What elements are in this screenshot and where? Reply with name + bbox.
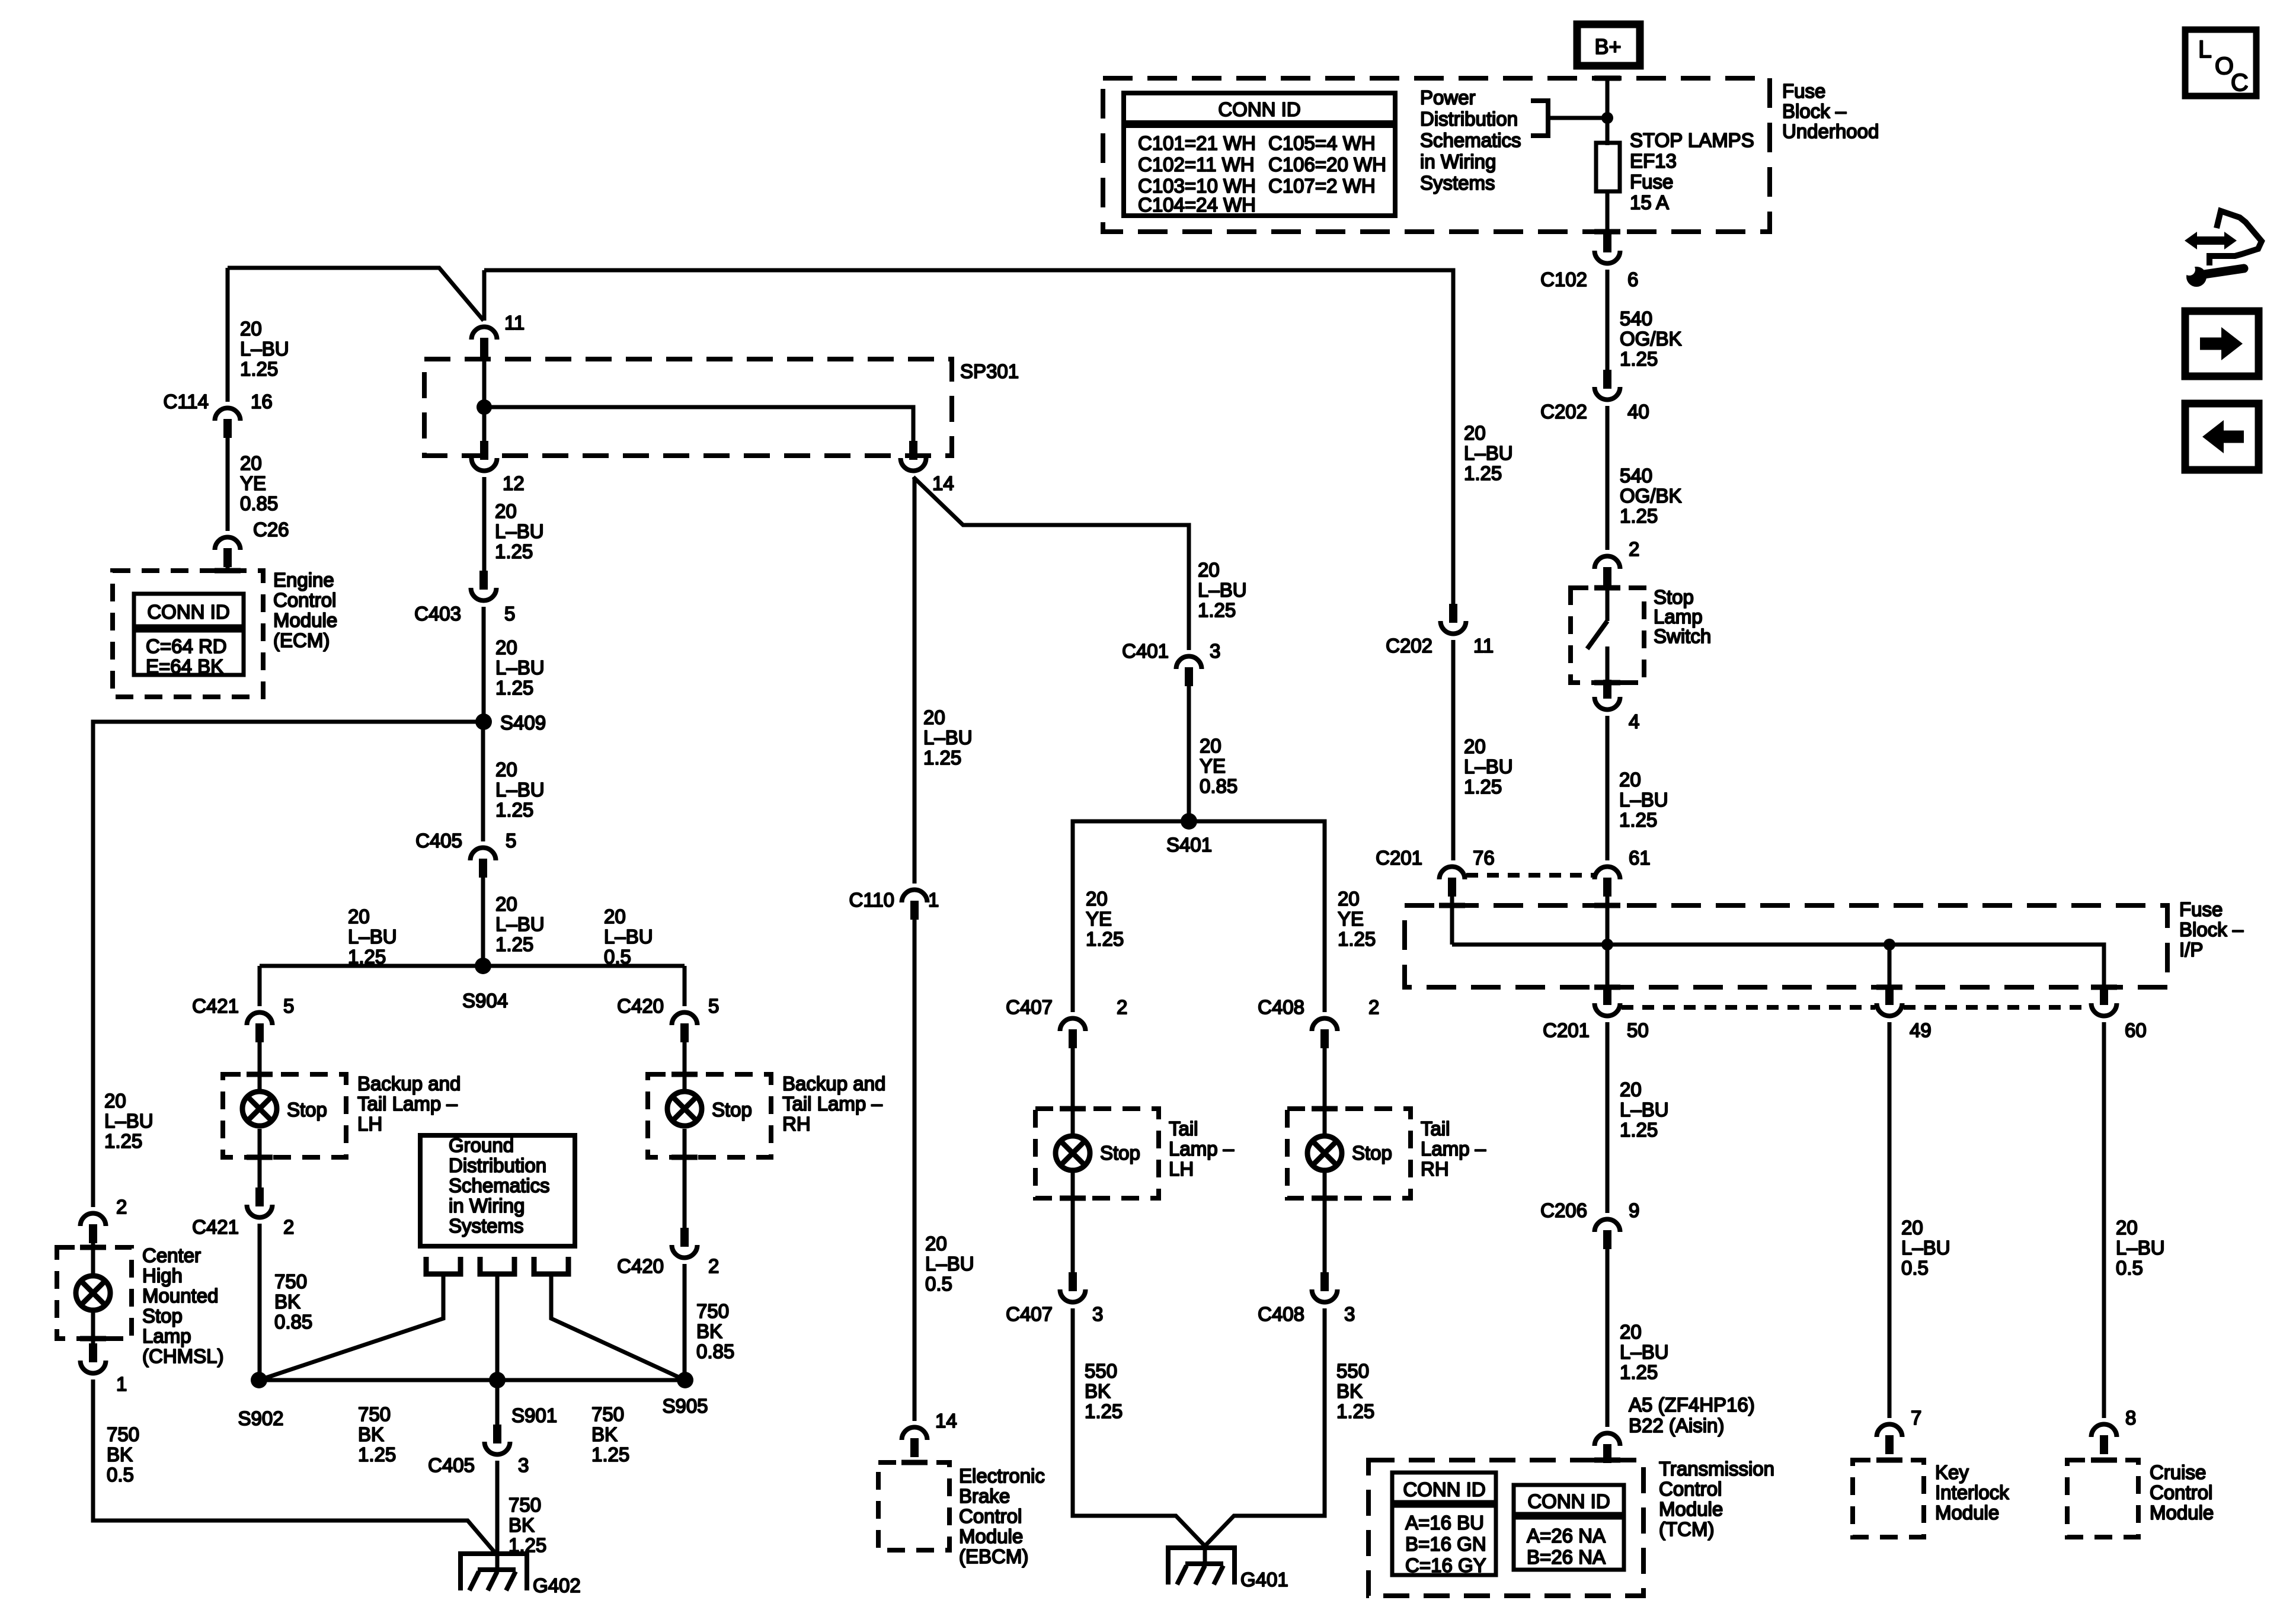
svg-text:2: 2: [1629, 538, 1639, 560]
svg-text:61: 61: [1629, 847, 1651, 869]
svg-text:G402: G402: [533, 1574, 581, 1596]
svg-text:A=26 NA: A=26 NA: [1527, 1525, 1606, 1547]
svg-text:C26: C26: [253, 518, 289, 540]
svg-text:L–BU: L–BU: [1619, 789, 1668, 811]
svg-text:CONN ID: CONN ID: [1403, 1478, 1485, 1500]
svg-text:750: 750: [696, 1300, 729, 1322]
svg-text:15 A: 15 A: [1630, 191, 1669, 213]
svg-text:RH: RH: [782, 1113, 811, 1135]
svg-text:Module: Module: [959, 1525, 1023, 1547]
crossing bar ECM top: [215, 568, 241, 574]
connector CHMSL pin 1: [80, 1361, 105, 1374]
connector C421 pin 2: [247, 1205, 273, 1218]
svg-text:C104=24 WH: C104=24 WH: [1138, 194, 1256, 216]
svg-text:C407: C407: [1006, 1303, 1053, 1325]
svg-text:(TCM): (TCM): [1659, 1518, 1714, 1540]
svg-text:LH: LH: [357, 1113, 382, 1135]
svg-text:20: 20: [495, 758, 517, 780]
wire tail RH to C408-3: [1323, 1170, 1327, 1273]
svg-text:S401: S401: [1166, 834, 1212, 856]
svg-text:5: 5: [708, 995, 719, 1017]
fuse block underhood dashed box: [1103, 78, 1770, 232]
wire conn12 to C403: [482, 477, 487, 572]
wire CHMSL conn2 into box: [91, 1240, 95, 1275]
crossing bar lamp RH bottom: [671, 1155, 698, 1160]
lamp box Tail Lamp RH: [1287, 1109, 1411, 1198]
svg-text:S902: S902: [238, 1407, 283, 1429]
wire C201-50 to C206: [1606, 1022, 1610, 1213]
wire CHMSL lamp to pin1: [91, 1311, 95, 1344]
crossing bar CHMSL top: [80, 1245, 106, 1250]
bracket power distribution reference: [1531, 101, 1548, 136]
svg-text:C102: C102: [1540, 268, 1587, 290]
svg-text:16: 16: [251, 391, 273, 412]
lamp Stop LH (tail lamp): [1056, 1136, 1090, 1170]
svg-text:9: 9: [1629, 1199, 1639, 1221]
connector C420 pin 2: [672, 1245, 698, 1258]
svg-text:Fuse: Fuse: [1782, 80, 1825, 102]
svg-text:0.5: 0.5: [1901, 1257, 1929, 1279]
svg-text:C102=11 WH: C102=11 WH: [1138, 153, 1255, 175]
connector C102 pin 6: [1595, 251, 1620, 264]
svg-text:C420: C420: [617, 1255, 664, 1277]
svg-text:20: 20: [604, 905, 626, 927]
module box Key Interlock Module: [1853, 1460, 1924, 1537]
svg-text:1.25: 1.25: [495, 933, 533, 955]
lamp box Tail Lamp LH: [1035, 1109, 1159, 1198]
svg-text:BK: BK: [358, 1423, 384, 1445]
svg-text:L–BU: L–BU: [1901, 1237, 1950, 1259]
svg-text:1.25: 1.25: [348, 946, 386, 968]
connector C201 pin 49: [1877, 1003, 1902, 1016]
svg-text:4: 4: [1629, 710, 1639, 732]
svg-text:Interlock: Interlock: [1935, 1481, 2009, 1503]
svg-text:C408: C408: [1258, 1303, 1304, 1325]
wire C405 to S904: [481, 874, 485, 966]
svg-text:0.5: 0.5: [107, 1464, 134, 1486]
svg-text:Systems: Systems: [449, 1215, 524, 1237]
crossing bar IP bottom at 49: [1876, 985, 1902, 990]
wire C201-76 into I/P bus: [1450, 894, 1454, 945]
connector C110 pin 1: [902, 890, 928, 903]
svg-text:20: 20: [1198, 559, 1220, 581]
svg-text:YE: YE: [1338, 908, 1364, 930]
wire S904 to C420: [683, 966, 687, 1006]
node S905: [677, 1372, 693, 1388]
svg-text:C101=21 WH: C101=21 WH: [1138, 132, 1256, 154]
connector C201 pin 76: [1440, 867, 1465, 880]
connector Key Interlock pin 7: [1877, 1425, 1902, 1438]
svg-text:L–BU: L–BU: [348, 926, 397, 948]
svg-text:750: 750: [274, 1270, 307, 1292]
svg-text:1.25: 1.25: [358, 1443, 396, 1465]
connector TCM pin A5/B22: [1595, 1433, 1620, 1446]
wire conn11 through SP301 to conn12: [482, 354, 487, 442]
crossing bar tail LH bottom: [1060, 1196, 1086, 1201]
svg-text:Control: Control: [1659, 1478, 1722, 1500]
crossing bar EBCM top: [901, 1460, 928, 1465]
svg-text:Distribution: Distribution: [1420, 108, 1518, 130]
svg-text:C405: C405: [415, 830, 462, 852]
module box Cruise Control Module: [2067, 1460, 2138, 1537]
svg-text:14: 14: [935, 1410, 957, 1432]
svg-text:L–BU: L–BU: [925, 1253, 974, 1275]
wire tail LH to C407-3: [1071, 1170, 1075, 1273]
svg-text:Tail: Tail: [1169, 1118, 1198, 1140]
svg-text:1.25: 1.25: [1338, 928, 1376, 950]
svg-text:1.25: 1.25: [1464, 776, 1502, 798]
svg-text:750: 750: [107, 1423, 139, 1445]
ground G402: [461, 1551, 527, 1556]
svg-text:20: 20: [1619, 769, 1641, 790]
crossing bar lamp RH top: [671, 1072, 698, 1077]
svg-text:750: 750: [509, 1494, 541, 1516]
wire C202-40 to switch pin2: [1606, 406, 1610, 550]
svg-text:2: 2: [116, 1196, 127, 1218]
svg-text:Tail: Tail: [1421, 1118, 1450, 1140]
wire CHMSL pin1 to ground run: [93, 1379, 495, 1553]
wire C405-3 to G402: [495, 1461, 500, 1554]
svg-text:540: 540: [1620, 308, 1652, 329]
crossing bar IP bottom at 50: [1594, 985, 1620, 990]
crossing bar CHMSL bottom: [80, 1336, 106, 1342]
svg-text:5: 5: [506, 830, 516, 852]
connector C407 pin 2: [1060, 1018, 1086, 1031]
svg-text:2: 2: [708, 1255, 719, 1277]
connector C403 pin 5: [471, 588, 497, 601]
svg-text:14: 14: [932, 472, 954, 494]
wire C420-2 to S905: [683, 1264, 687, 1380]
svg-text:20: 20: [1464, 422, 1486, 444]
crossing bar lamp LH top: [247, 1072, 273, 1077]
connector switch pin 4: [1595, 697, 1620, 710]
icon box back arrow: [2185, 404, 2259, 470]
table CONN ID 2 body box (TCM): [1514, 1518, 1624, 1570]
wire top horizontal C114 branch: [228, 268, 484, 321]
wire S901 to C405-3: [495, 1380, 500, 1425]
svg-text:C201: C201: [1376, 847, 1422, 869]
switch box Stop Lamp Switch: [1571, 588, 1644, 683]
svg-text:L–BU: L–BU: [104, 1110, 154, 1132]
lamp Stop RH (backup/tail): [667, 1092, 702, 1126]
wire S904 horizontal bus: [260, 964, 685, 968]
svg-text:BK: BK: [591, 1423, 618, 1445]
svg-text:20: 20: [104, 1090, 126, 1112]
node S409: [475, 713, 492, 730]
connector C408 pin 3: [1312, 1289, 1338, 1302]
connector C206 pin 9: [1595, 1219, 1620, 1233]
table CONN ID 1 body box (TCM): [1392, 1506, 1496, 1575]
svg-text:RH: RH: [1421, 1158, 1449, 1180]
svg-text:C420: C420: [617, 995, 664, 1017]
svg-text:Control: Control: [2150, 1481, 2212, 1503]
connector 14: [901, 458, 926, 471]
svg-text:0.5: 0.5: [604, 946, 631, 968]
svg-text:5: 5: [283, 995, 294, 1017]
svg-text:Module: Module: [1935, 1502, 1999, 1523]
svg-text:S901: S901: [511, 1404, 557, 1426]
svg-text:L–BU: L–BU: [604, 926, 653, 948]
svg-text:Tail Lamp –: Tail Lamp –: [782, 1093, 882, 1115]
svg-text:L–BU: L–BU: [495, 657, 545, 678]
svg-text:C407: C407: [1006, 996, 1053, 1018]
lamp Stop RH (tail lamp): [1307, 1136, 1342, 1170]
svg-text:Control: Control: [273, 589, 336, 611]
wire S904 to C421: [258, 966, 262, 1006]
wire C202-11 to C201-76: [1451, 640, 1456, 860]
svg-text:20: 20: [1464, 735, 1486, 757]
wire S409 branch to CHMSL: [93, 722, 484, 1207]
svg-text:L–BU: L–BU: [1198, 579, 1247, 601]
svg-text:C421: C421: [192, 995, 239, 1017]
wire switch pin4 to C201-61: [1606, 716, 1610, 860]
svg-text:Ground: Ground: [449, 1134, 514, 1156]
wire C206 to TCM: [1606, 1246, 1610, 1427]
svg-text:G401: G401: [1240, 1569, 1288, 1590]
crossing bar switch bottom: [1594, 680, 1620, 686]
wire second top horizontal to C202-11: [484, 270, 1453, 604]
svg-text:SP301: SP301: [960, 360, 1019, 382]
table CONN ID header box (ECM): [134, 594, 244, 626]
wire B+ to fuse: [1606, 78, 1610, 145]
svg-text:1.25: 1.25: [1619, 809, 1657, 831]
svg-text:L–BU: L–BU: [1464, 756, 1513, 777]
svg-text:12: 12: [503, 472, 525, 494]
svg-text:Stop: Stop: [1352, 1142, 1392, 1164]
svg-text:1.25: 1.25: [240, 358, 278, 380]
svg-text:Center: Center: [142, 1244, 201, 1266]
crossing bar TCM top: [1594, 1458, 1620, 1463]
svg-text:in Wiring: in Wiring: [1420, 151, 1496, 172]
ground G401: [1168, 1545, 1235, 1550]
svg-text:STOP LAMPS: STOP LAMPS: [1630, 129, 1754, 151]
svg-text:550: 550: [1336, 1360, 1369, 1382]
wire C114 riser vertical: [226, 268, 230, 402]
wire C408-2 into lamp box: [1323, 1045, 1327, 1134]
node S901: [489, 1372, 506, 1388]
splice box SP301: [424, 359, 952, 456]
svg-text:0.85: 0.85: [274, 1311, 312, 1333]
connector C405 pin 3: [485, 1442, 510, 1455]
svg-text:20: 20: [495, 636, 517, 658]
svg-text:Block –: Block –: [1782, 100, 1847, 122]
connector Cruise Control pin 8: [2092, 1425, 2117, 1438]
svg-text:20: 20: [1901, 1217, 1923, 1238]
svg-text:C110: C110: [849, 889, 894, 911]
svg-text:BK: BK: [274, 1291, 300, 1313]
svg-text:BK: BK: [509, 1514, 535, 1536]
svg-text:C105=4 WH: C105=4 WH: [1268, 132, 1376, 154]
svg-text:C106=20 WH: C106=20 WH: [1268, 153, 1386, 175]
wire C407-3 to G401: [1073, 1308, 1205, 1546]
svg-text:BK: BK: [107, 1443, 133, 1465]
svg-text:CONN ID: CONN ID: [1527, 1490, 1610, 1512]
svg-text:YE: YE: [240, 472, 266, 494]
connector switch pin 2: [1595, 556, 1620, 569]
connector leg 2 (ground distribution): [480, 1257, 514, 1274]
svg-text:C421: C421: [192, 1216, 239, 1238]
svg-text:(ECM): (ECM): [273, 629, 330, 651]
svg-text:C107=2 WH: C107=2 WH: [1268, 175, 1376, 197]
svg-text:1.25: 1.25: [591, 1443, 629, 1465]
svg-text:0.5: 0.5: [2116, 1257, 2143, 1279]
svg-text:20: 20: [2116, 1217, 2138, 1238]
svg-text:Stop: Stop: [1654, 586, 1694, 608]
icon box forward arrow: [2185, 311, 2259, 376]
svg-text:20: 20: [495, 893, 517, 915]
svg-text:1: 1: [116, 1373, 127, 1395]
wire pin60 to Cruise Control: [2102, 1022, 2106, 1418]
svg-text:0.85: 0.85: [696, 1340, 734, 1362]
svg-text:C403: C403: [414, 603, 461, 625]
crossing bar IP top at 61: [1594, 903, 1620, 908]
wire pin49 to Key Interlock: [1888, 1022, 1892, 1418]
svg-text:L–BU: L–BU: [923, 726, 973, 748]
svg-text:20: 20: [923, 706, 945, 728]
table CONN ID 1 header box (TCM): [1392, 1473, 1496, 1502]
svg-text:Schematics: Schematics: [1420, 129, 1521, 151]
svg-text:5: 5: [504, 603, 515, 625]
LOC reference box: [2185, 30, 2256, 96]
svg-text:L–BU: L–BU: [240, 338, 289, 360]
svg-text:Backup and: Backup and: [357, 1073, 461, 1094]
svg-text:2: 2: [283, 1216, 294, 1238]
connector C401 pin 3: [1176, 657, 1202, 670]
crossing bar underhood bottom: [1594, 229, 1620, 235]
icon back arrow: [2221, 431, 2244, 443]
crossing bar key top: [1876, 1458, 1902, 1463]
wire leg2 to S901: [495, 1274, 500, 1380]
svg-text:50: 50: [1627, 1019, 1649, 1041]
svg-text:Key: Key: [1935, 1461, 1969, 1483]
svg-text:YE: YE: [1086, 908, 1112, 930]
crossing bar underhood top: [1594, 76, 1620, 81]
wire C408-3 to G401: [1205, 1308, 1325, 1546]
svg-text:Power: Power: [1420, 87, 1476, 108]
wire lamp RH to C420-2: [683, 1129, 687, 1228]
crossing bar IP bottom at 60: [2091, 985, 2117, 990]
svg-text:750: 750: [358, 1403, 391, 1425]
connector C201 pin 61: [1595, 867, 1620, 880]
connector C114 pin 16: [215, 408, 240, 421]
svg-text:B+: B+: [1594, 34, 1621, 59]
switch lever stop lamp switch: [1606, 584, 1610, 621]
svg-text:L–BU: L–BU: [1620, 1099, 1669, 1121]
svg-text:1.25: 1.25: [1620, 1119, 1658, 1141]
module box Engine Control Module (ECM): [113, 571, 263, 697]
svg-text:L–BU: L–BU: [495, 520, 544, 542]
svg-text:(CHMSL): (CHMSL): [142, 1345, 224, 1367]
svg-text:Systems: Systems: [1420, 172, 1495, 194]
wire conn11 riser: [482, 270, 487, 321]
svg-text:20: 20: [1200, 735, 1221, 757]
svg-text:1.25: 1.25: [1085, 1400, 1123, 1422]
svg-text:1: 1: [928, 889, 939, 911]
svg-text:OG/BK: OG/BK: [1620, 485, 1682, 507]
svg-text:20: 20: [240, 318, 262, 340]
svg-text:Stop: Stop: [142, 1305, 183, 1327]
wire C102 to C202-40: [1606, 270, 1610, 370]
svg-text:540: 540: [1620, 465, 1652, 486]
module box Transmission Control Module (TCM): [1368, 1460, 1643, 1596]
lamp Stop LH (backup/tail): [242, 1092, 277, 1126]
svg-text:1.25: 1.25: [495, 540, 533, 562]
svg-text:B22 (Aisin): B22 (Aisin): [1629, 1414, 1724, 1436]
icon double arrow: [2195, 236, 2227, 245]
svg-text:BK: BK: [1085, 1380, 1111, 1402]
dotted connector line C201 lower left: [1622, 1005, 1875, 1010]
svg-text:750: 750: [591, 1403, 624, 1425]
connector 12: [472, 458, 497, 471]
lamp box CHMSL: [57, 1247, 132, 1339]
svg-text:Distribution: Distribution: [449, 1154, 546, 1176]
svg-text:Module: Module: [2150, 1502, 2214, 1523]
svg-text:C401: C401: [1122, 640, 1169, 662]
svg-text:A=16 BU: A=16 BU: [1405, 1512, 1484, 1534]
svg-text:1.25: 1.25: [104, 1130, 142, 1152]
svg-text:49: 49: [1910, 1019, 1932, 1041]
wire C420 into lamp box: [683, 1039, 687, 1094]
svg-text:1.25: 1.25: [1464, 462, 1502, 484]
svg-text:0.85: 0.85: [240, 492, 278, 514]
wire C401 to S401: [1187, 683, 1191, 821]
svg-text:C202: C202: [1540, 401, 1587, 422]
svg-text:C202: C202: [1386, 635, 1432, 657]
svg-text:1.25: 1.25: [1620, 505, 1658, 527]
connector C420 pin 5: [672, 1013, 698, 1026]
svg-text:40: 40: [1627, 401, 1649, 422]
svg-text:8: 8: [2125, 1407, 2136, 1429]
svg-text:1.25: 1.25: [923, 747, 961, 769]
wire lamp LH to C421-2: [258, 1129, 262, 1188]
node S902: [251, 1372, 267, 1388]
svg-text:3: 3: [1210, 640, 1220, 662]
wire C403 to S409: [482, 607, 486, 722]
svg-text:6: 6: [1627, 268, 1638, 290]
svg-text:CONN ID: CONN ID: [147, 601, 229, 623]
svg-text:BK: BK: [696, 1320, 722, 1342]
svg-text:20: 20: [348, 905, 370, 927]
icon wrench: [2186, 267, 2207, 287]
connector leg 3 (ground distribution): [534, 1257, 568, 1274]
svg-text:Fuse: Fuse: [1630, 171, 1673, 193]
svg-text:Mounted: Mounted: [142, 1285, 218, 1307]
svg-text:Brake: Brake: [959, 1485, 1010, 1507]
svg-text:7: 7: [1911, 1407, 1921, 1429]
svg-text:1.25: 1.25: [1336, 1400, 1374, 1422]
fuse block I/P dashed box: [1405, 905, 2167, 987]
svg-text:B=26 NA: B=26 NA: [1527, 1546, 1606, 1568]
lamp box Backup and Tail Lamp RH: [648, 1074, 771, 1157]
connector 11: [472, 327, 497, 340]
wire ground bus S902-S901-S905: [259, 1378, 685, 1382]
wire bracket to B+ node: [1548, 116, 1607, 120]
svg-text:C: C: [2231, 69, 2249, 96]
svg-text:Transmission: Transmission: [1659, 1458, 1774, 1480]
svg-text:Tail Lamp –: Tail Lamp –: [357, 1093, 458, 1115]
svg-text:Lamp: Lamp: [1654, 606, 1703, 628]
connector C421 pin 5: [247, 1013, 273, 1026]
crossing bar switch top: [1594, 585, 1620, 591]
svg-text:in Wiring: in Wiring: [449, 1195, 525, 1217]
table CONN ID 2 header box (TCM): [1514, 1485, 1624, 1514]
connector C202 pin 40: [1595, 387, 1620, 400]
node B+ junction: [1601, 112, 1613, 124]
svg-text:1.25: 1.25: [1198, 599, 1236, 621]
svg-text:S409: S409: [500, 712, 546, 734]
svg-text:Schematics: Schematics: [449, 1174, 550, 1196]
svg-text:OG/BK: OG/BK: [1620, 328, 1682, 350]
